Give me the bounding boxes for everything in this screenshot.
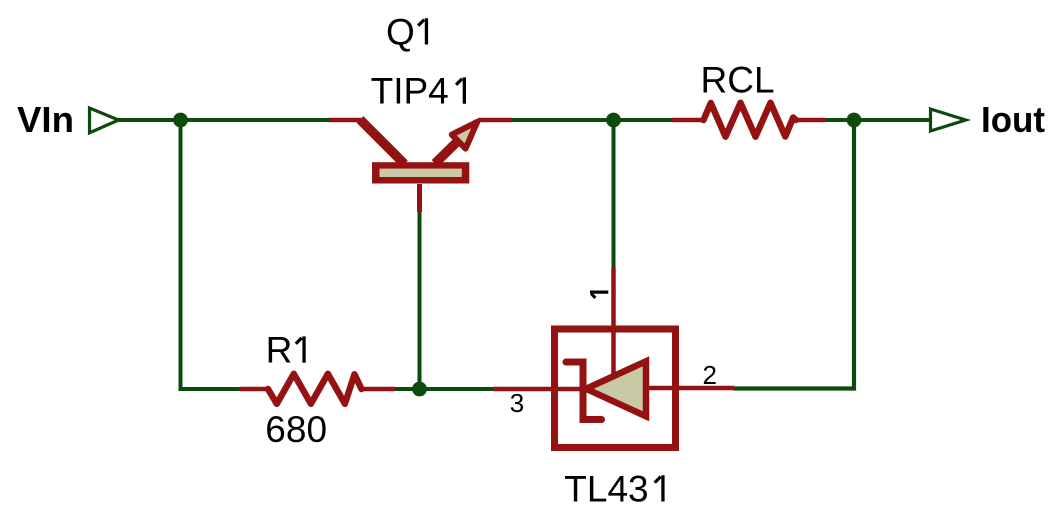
svg-text:TIP4: TIP4 [371, 71, 449, 112]
svg-text:Q: Q [386, 12, 415, 53]
svg-text:R: R [266, 330, 293, 371]
svg-text:RCL: RCL [701, 59, 775, 100]
svg-text:2: 2 [703, 360, 717, 390]
svg-text:VIn: VIn [17, 99, 74, 140]
svg-text:3: 3 [510, 388, 524, 418]
svg-text:TL43: TL43 [564, 469, 648, 510]
svg-text:Iout: Iout [981, 99, 1045, 140]
svg-text:680: 680 [265, 409, 327, 450]
